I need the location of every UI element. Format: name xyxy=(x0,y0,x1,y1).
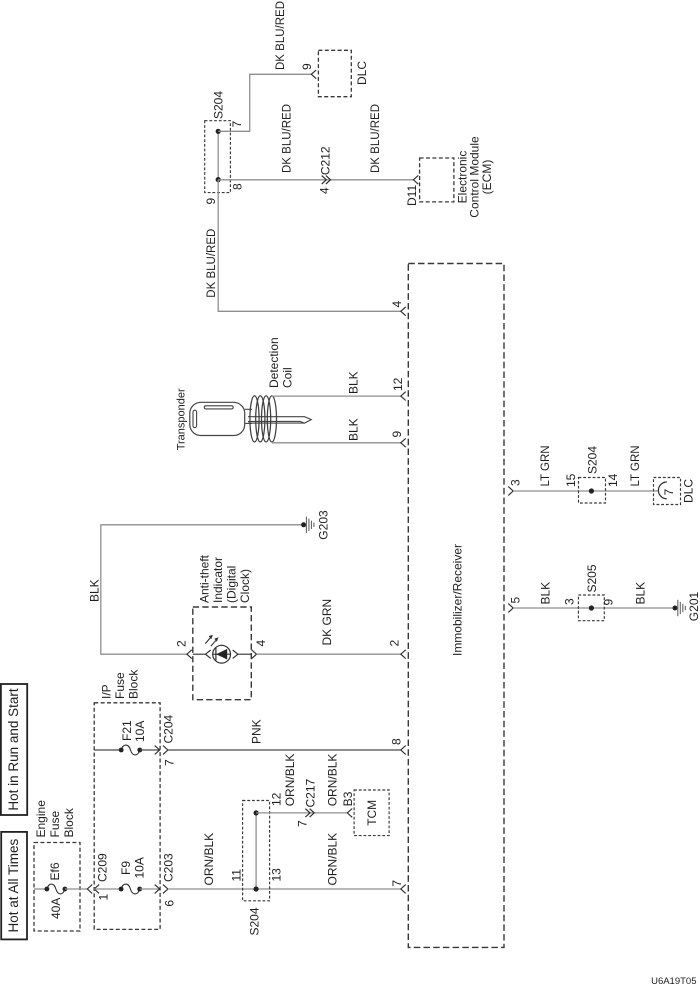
svg-text:Clock): Clock) xyxy=(238,569,252,603)
connector C204 fork pair xyxy=(155,746,160,755)
wire DK BLU/RED S204-8 to C212 xyxy=(218,179,413,181)
svg-text:5: 5 xyxy=(508,597,522,604)
pin fork immobilizer pin 12 xyxy=(401,392,406,401)
pin fork immobilizer pin 3 xyxy=(508,487,513,496)
svg-text:S204: S204 xyxy=(211,91,225,119)
svg-text:LT GRN: LT GRN xyxy=(540,445,552,486)
wire F9 to C203 xyxy=(140,888,160,890)
svg-text:(ECM): (ECM) xyxy=(480,160,494,195)
svg-text:TCM: TCM xyxy=(365,800,379,826)
splice S204 lower dot pin 12 xyxy=(254,810,259,815)
svg-text:Hot in Run and Start: Hot in Run and Start xyxy=(6,688,21,811)
pin fork immobilizer pin 7 xyxy=(401,885,406,894)
svg-text:4: 4 xyxy=(254,640,268,647)
indicator Anti-theft box xyxy=(193,607,252,700)
connector DLC box (top) xyxy=(318,50,351,96)
svg-text:U6A19T05: U6A19T05 xyxy=(651,976,696,986)
svg-text:9: 9 xyxy=(204,198,218,205)
wire inside engine fuse block xyxy=(34,888,47,890)
splice S204 box (right) xyxy=(579,478,606,504)
splice S204 box (top) xyxy=(205,121,231,193)
fuse F21 10A xyxy=(121,745,140,755)
Engine Fuse Block box xyxy=(34,843,80,932)
pin fork indicator pin 4 xyxy=(252,650,257,659)
svg-text:7: 7 xyxy=(390,880,404,887)
fuse F9 10A xyxy=(121,884,140,894)
indicator internal wire left xyxy=(193,653,206,655)
pin fork indicator pin 2 xyxy=(187,650,192,659)
wire ORN/BLK C203 to immobilizer-7 xyxy=(168,888,401,890)
svg-text:Immobilizer/Receiver: Immobilizer/Receiver xyxy=(450,544,464,656)
svg-text:8: 8 xyxy=(389,738,403,745)
header box Hot in Run and Start xyxy=(1,684,27,815)
pin fork immobilizer pin 8 xyxy=(401,746,406,755)
svg-text:I/P: I/P xyxy=(99,684,113,699)
svg-text:S204: S204 xyxy=(247,907,261,935)
pin fork immobilizer pin 2 xyxy=(401,650,406,659)
LED anti-theft indicator xyxy=(213,645,231,663)
svg-text:D11: D11 xyxy=(405,185,419,206)
connector C203 fork pair xyxy=(155,885,160,894)
svg-text:7: 7 xyxy=(162,759,176,766)
indicator internal wire right xyxy=(238,653,251,655)
svg-text:G201: G201 xyxy=(687,591,700,621)
wire LT GRN immobilizer-3 to DLC xyxy=(513,490,658,492)
LED terminal fork left xyxy=(206,650,211,658)
splice S204 right dot xyxy=(589,488,594,493)
svg-text:G203: G203 xyxy=(316,510,330,540)
wire BLK coil to immobilizer-12 xyxy=(272,395,401,397)
wire DK BLU/RED S204 to Immobilizer-4 xyxy=(218,180,401,311)
svg-text:12: 12 xyxy=(270,792,284,806)
transponder key neck xyxy=(245,409,252,423)
connector C217 chevrons xyxy=(305,809,310,817)
wire BLK immobilizer-5 to G201 xyxy=(513,607,675,609)
wire engine fuse to C209 xyxy=(65,888,87,890)
svg-text:9: 9 xyxy=(390,431,404,438)
label I/P Fuse Block xyxy=(99,669,140,699)
transponder key blade xyxy=(248,417,311,423)
svg-text:13: 13 xyxy=(270,868,284,882)
wire DK BLU/RED S204-7 to DLC-9 xyxy=(218,74,311,131)
svg-text:C203: C203 xyxy=(161,853,175,882)
svg-text:Fuse: Fuse xyxy=(48,810,62,837)
splice S205 box xyxy=(578,595,604,621)
I/P Fuse Block box xyxy=(94,703,160,930)
svg-text:7: 7 xyxy=(295,820,309,827)
DLC female cavity arc xyxy=(658,482,666,499)
wire ORN/BLK S204-12 to C217 xyxy=(256,812,347,814)
wire BLK coil to immobilizer-9 xyxy=(272,442,401,444)
svg-text:C217: C217 xyxy=(303,778,317,807)
svg-text:Anti-theft: Anti-theft xyxy=(197,554,211,603)
svg-text:DLC: DLC xyxy=(355,61,369,85)
svg-text:Detection: Detection xyxy=(267,337,281,388)
svg-text:BLK: BLK xyxy=(346,371,360,394)
module ECM box xyxy=(420,158,454,202)
wire C209 to fuse F9 xyxy=(94,888,121,890)
svg-text:BLK: BLK xyxy=(634,582,648,605)
ground G203 xyxy=(301,522,306,527)
svg-text:Hot at All Times: Hot at All Times xyxy=(6,838,21,932)
header box Hot at All Times xyxy=(1,832,27,940)
svg-text:Transponder: Transponder xyxy=(175,388,187,450)
svg-text:4: 4 xyxy=(390,301,404,308)
svg-text:11: 11 xyxy=(229,869,243,882)
pin fork DLC pin 9 xyxy=(311,70,316,79)
splice S204 box (lower) xyxy=(243,801,270,901)
module TCM box xyxy=(354,790,389,836)
wire DK GRN indicator to immobilizer-2 xyxy=(257,653,401,655)
pin fork immobilizer pin 9 xyxy=(401,438,406,447)
splice S204 junction dot pin8 xyxy=(216,177,221,182)
svg-text:F21: F21 xyxy=(120,720,134,741)
connector DLC box (right) xyxy=(654,478,681,505)
fuse Ef6 40A xyxy=(47,884,65,894)
wire BLK indicator-2 to G203 xyxy=(101,525,304,654)
splice S204 lower dot main xyxy=(254,886,259,891)
label Electronic Control Module (ECM) xyxy=(455,136,494,218)
module Immobilizer/Receiver box xyxy=(408,264,504,948)
pin fork ECM D11 xyxy=(413,175,418,184)
svg-text:DK BLU/RED: DK BLU/RED xyxy=(282,104,294,173)
svg-text:F9: F9 xyxy=(119,861,133,875)
label Anti-theft Indicator (Digital Clock) xyxy=(197,554,252,603)
svg-text:Ef6: Ef6 xyxy=(48,862,62,880)
svg-text:7: 7 xyxy=(230,121,244,128)
svg-text:Fuse: Fuse xyxy=(113,672,127,699)
svg-text:C209: C209 xyxy=(95,853,109,882)
svg-text:4: 4 xyxy=(318,187,332,194)
transponder key head xyxy=(190,402,245,435)
svg-text:DK BLU/RED: DK BLU/RED xyxy=(206,229,218,298)
svg-text:DLC: DLC xyxy=(681,479,695,503)
svg-text:Engine: Engine xyxy=(34,800,48,838)
svg-text:14: 14 xyxy=(606,473,620,487)
svg-text:B3: B3 xyxy=(341,791,355,806)
svg-text:15: 15 xyxy=(564,473,578,487)
svg-text:9: 9 xyxy=(602,599,616,606)
pin fork TCM B3 xyxy=(347,809,352,818)
svg-text:6: 6 xyxy=(162,900,176,907)
svg-text:LT GRN: LT GRN xyxy=(630,445,642,486)
detection coil windings xyxy=(250,396,259,442)
svg-text:10A: 10A xyxy=(133,721,147,742)
svg-text:DK GRN: DK GRN xyxy=(320,599,334,646)
connector C209 fork pair xyxy=(87,885,92,894)
svg-text:3: 3 xyxy=(508,479,522,486)
svg-text:C212: C212 xyxy=(318,146,332,175)
ground G201 xyxy=(673,606,678,611)
svg-text:9: 9 xyxy=(300,63,314,70)
splice S205 dot xyxy=(589,605,594,610)
svg-text:Block: Block xyxy=(62,807,76,837)
svg-text:DK BLU/RED: DK BLU/RED xyxy=(275,1,287,70)
svg-text:12: 12 xyxy=(391,377,405,391)
svg-text:BLK: BLK xyxy=(538,582,552,605)
wire PNK C204 to immobilizer-8 xyxy=(168,749,401,751)
svg-text:2: 2 xyxy=(174,640,188,647)
svg-text:ORN/BLK: ORN/BLK xyxy=(325,833,339,886)
svg-text:Block: Block xyxy=(126,669,140,699)
svg-text:3: 3 xyxy=(562,598,576,605)
splice S204 lower internal bus xyxy=(255,813,257,889)
svg-text:40A: 40A xyxy=(49,898,63,919)
svg-text:S204: S204 xyxy=(585,446,599,474)
svg-text:Indicator: Indicator xyxy=(211,557,225,603)
svg-text:(Digital: (Digital xyxy=(224,566,238,603)
svg-text:10A: 10A xyxy=(132,857,146,878)
pin fork immobilizer pin 5 xyxy=(508,604,513,613)
svg-text:BLK: BLK xyxy=(346,418,360,441)
label Engine Fuse Block xyxy=(34,800,76,838)
svg-text:BLK: BLK xyxy=(87,579,101,602)
svg-text:1: 1 xyxy=(96,894,110,901)
svg-text:C204: C204 xyxy=(161,714,175,743)
LED emission arrows xyxy=(205,635,218,647)
svg-text:Coil: Coil xyxy=(280,367,294,388)
svg-text:S205: S205 xyxy=(585,564,599,592)
svg-text:8: 8 xyxy=(231,183,245,190)
svg-text:PNK: PNK xyxy=(249,719,263,744)
svg-text:7: 7 xyxy=(662,489,676,496)
splice S204 internal bus xyxy=(217,131,219,179)
svg-text:ORN/BLK: ORN/BLK xyxy=(325,754,339,807)
connector C212 chevrons xyxy=(322,176,327,184)
wire to fuse F21 xyxy=(94,749,121,751)
LED terminal fork right xyxy=(233,650,238,658)
label Detection Coil xyxy=(267,337,295,388)
wire F21 to C204 xyxy=(140,749,160,751)
splice S204 junction dot pin7 xyxy=(216,129,221,134)
pin fork immobilizer pin 4 xyxy=(401,307,406,316)
svg-text:ORN/BLK: ORN/BLK xyxy=(283,754,297,807)
svg-text:2: 2 xyxy=(387,640,401,647)
svg-text:ORN/BLK: ORN/BLK xyxy=(202,833,216,886)
svg-text:DK BLU/RED: DK BLU/RED xyxy=(370,104,382,173)
